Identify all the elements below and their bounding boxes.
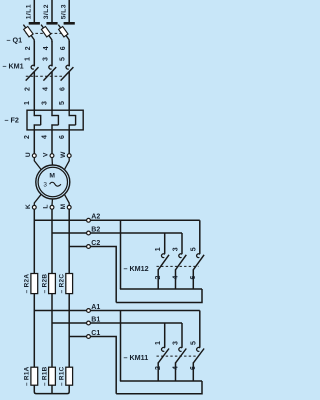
contactor KM12 label [124, 264, 149, 273]
KM11 bottom wire contact 6 [192, 362, 194, 381]
svg-text:M: M [60, 203, 67, 209]
resistor R2C [59, 274, 73, 294]
node C1 line with terminal [69, 330, 116, 394]
KM1 terminal number 3 [42, 57, 49, 61]
wire KM1 to F2 phase 1 [33, 72, 35, 110]
svg-text:– R1A: – R1A [24, 366, 31, 386]
F2 terminal number 4 [42, 135, 49, 139]
wire Q1 pole 1 lower [33, 41, 35, 66]
KM11 contact 3-4 [176, 348, 187, 363]
svg-text:– KM11: – KM11 [124, 353, 149, 362]
svg-text:C2: C2 [91, 240, 100, 247]
KM11 linkage [157, 355, 199, 357]
svg-text:– R2B: – R2B [41, 274, 48, 294]
node A1 line with terminal [34, 304, 200, 313]
rotor terminal M [60, 203, 71, 209]
wire star point bus [34, 385, 69, 393]
resistor R1C [59, 366, 73, 386]
contactor KM1 label [3, 62, 24, 71]
wire F2 to motor terminal phase 1 [33, 130, 35, 154]
wire F2 to motor terminal phase 2 [51, 130, 53, 154]
svg-text:6: 6 [59, 135, 66, 139]
wire below R2B [51, 294, 53, 368]
F2 terminal number 1 [24, 101, 31, 105]
KM11 left vertical from A line [120, 311, 122, 382]
svg-text:4: 4 [43, 46, 50, 50]
svg-text:6: 6 [60, 46, 67, 50]
KM12 terminal number 3 [173, 247, 180, 251]
svg-text:3: 3 [173, 341, 180, 345]
svg-text:A1: A1 [91, 304, 100, 311]
KM11 outer loop [116, 381, 202, 394]
svg-text:6: 6 [60, 87, 67, 91]
svg-text:K: K [25, 204, 32, 209]
KM12 bottom wire contact 4 [175, 269, 177, 289]
svg-text:M: M [49, 173, 55, 180]
svg-text:– R2C: – R2C [59, 274, 66, 294]
KM12 terminal number 1 [155, 247, 162, 251]
svg-text:4: 4 [172, 366, 179, 370]
svg-text:2: 2 [25, 46, 32, 50]
svg-text:5: 5 [190, 341, 197, 345]
rotor terminal K [25, 204, 36, 209]
F2 terminal number 6 [59, 135, 66, 139]
svg-text:– KM1: – KM1 [3, 62, 24, 71]
node B2 line with terminal [52, 226, 182, 235]
KM1 terminal number 2 [25, 87, 32, 91]
svg-text:U: U [25, 152, 32, 157]
KM12 terminal number 4 [172, 276, 179, 280]
svg-text:6: 6 [190, 276, 197, 280]
motor terminal V [43, 152, 54, 157]
KM11 terminal number 3 [173, 341, 180, 345]
KM12 terminal number 2 [155, 276, 162, 280]
svg-text:– KM12: – KM12 [124, 264, 149, 273]
motor 3-phase symbol [43, 181, 60, 188]
KM12 bottom wire contact 2 [157, 269, 159, 289]
KM12 supply corner from A line [199, 220, 201, 254]
KM12 contact 1-2 [158, 254, 169, 270]
wire rotor phase M down [68, 209, 70, 273]
wire below R2C [68, 294, 70, 368]
svg-text:– F2: – F2 [5, 115, 19, 124]
contactor KM1 linkage [26, 75, 63, 77]
wire rotor phase L down [51, 209, 53, 273]
svg-text:5: 5 [190, 247, 197, 251]
node A2 line with terminal [34, 214, 200, 223]
breaker Q1 linkage [26, 32, 63, 34]
breaker Q1 pole 1 blade with fuse body [23, 25, 34, 42]
node C2 line with terminal [69, 240, 116, 303]
contactor KM1 contact 5-6 [61, 65, 74, 80]
resistor R1A [24, 366, 38, 386]
KM12 bottom wire contact 6 [192, 269, 194, 289]
svg-text:4: 4 [42, 135, 49, 139]
svg-text:4: 4 [172, 276, 179, 280]
KM11 terminal number 2 [155, 366, 162, 370]
KM12 terminal number 6 [190, 276, 197, 280]
Q1 terminal number 6 [60, 46, 67, 50]
svg-text:W: W [60, 151, 67, 158]
wire Q1 pole 3 lower [68, 41, 70, 66]
svg-text:1: 1 [155, 247, 162, 251]
KM11 terminal number 4 [172, 366, 179, 370]
F2 terminal number 3 [42, 101, 49, 105]
wire motor feeds U V W [34, 157, 69, 169]
KM11 bottom wire contact 4 [175, 362, 177, 381]
svg-text:4: 4 [42, 87, 49, 91]
KM11 supply stub contact 1 [164, 323, 166, 348]
contactor KM1 contact 1-2 [26, 65, 39, 80]
KM11 contact 1-2 [158, 348, 169, 363]
breaker Q1 label [7, 36, 23, 45]
wire below R2A [33, 294, 35, 368]
svg-text:– R1C: – R1C [59, 366, 66, 386]
overload relay F2 label [5, 115, 19, 124]
F2 terminal number 5 [59, 101, 66, 105]
wire motor rotor leads [34, 195, 69, 206]
KM11 bottom wire contact 2 [157, 362, 159, 381]
svg-text:1: 1 [24, 101, 31, 105]
svg-text:2: 2 [25, 87, 32, 91]
KM11 terminal number 5 [190, 341, 197, 345]
svg-text:1: 1 [25, 57, 32, 61]
KM12 outer loop [116, 289, 202, 303]
svg-text:2: 2 [155, 366, 162, 370]
svg-text:– R1B: – R1B [41, 366, 48, 386]
KM12 common bus [120, 288, 202, 290]
breaker Q1 pole 3 blade with fuse body [58, 25, 69, 42]
svg-text:V: V [43, 152, 50, 157]
svg-text:3: 3 [42, 57, 49, 61]
KM12 terminal number 5 [190, 247, 197, 251]
rotor terminal L [43, 205, 54, 210]
KM1 terminal number 4 [42, 87, 49, 91]
Q1 terminal number 4 [43, 46, 50, 50]
KM12 supply corner from B line [181, 233, 183, 254]
svg-text:3: 3 [42, 101, 49, 105]
F2 terminal number 2 [24, 135, 31, 139]
KM11 terminal number 6 [190, 366, 197, 370]
KM12 left vertical from A line [120, 220, 122, 289]
wire KM1 to F2 phase 2 [51, 72, 53, 110]
resistor R2B [41, 274, 55, 294]
KM12 linkage [157, 265, 199, 267]
contactor KM11 label [124, 353, 149, 362]
supply terminal 3/L2 [43, 0, 57, 23]
KM11 supply corner from B line [181, 323, 183, 348]
KM1 terminal number 1 [25, 57, 32, 61]
svg-text:3: 3 [43, 181, 47, 188]
svg-text:L: L [43, 205, 50, 209]
svg-text:3/L2: 3/L2 [43, 4, 50, 19]
KM1 terminal number 5 [60, 57, 67, 61]
breaker Q1 pole 2 blade with fuse body [41, 25, 52, 42]
motor M 3~ circle [36, 165, 70, 199]
Q1 terminal number 2 [25, 46, 32, 50]
svg-text:2: 2 [24, 135, 31, 139]
KM12 supply stub contact 1 [164, 233, 166, 254]
KM12 contact 5-6 [193, 254, 204, 270]
svg-text:2: 2 [155, 276, 162, 280]
svg-text:B1: B1 [91, 316, 100, 323]
resistor R1B [41, 366, 55, 386]
wire KM1 to F2 phase 3 [68, 72, 70, 110]
wire Q1 pole 2 lower [51, 41, 53, 66]
svg-text:A2: A2 [91, 214, 100, 221]
node B1 line with terminal [52, 316, 182, 325]
overload relay F2 heater meander [27, 110, 83, 131]
supply terminal 1/L1 [26, 0, 40, 23]
KM11 contact 5-6 [193, 348, 204, 363]
svg-text:C1: C1 [91, 330, 100, 337]
svg-text:3: 3 [173, 247, 180, 251]
svg-text:6: 6 [190, 366, 197, 370]
resistor R2A [24, 274, 38, 294]
svg-text:1/L1: 1/L1 [26, 4, 33, 19]
KM12 contact 3-4 [176, 254, 187, 270]
svg-text:– R2A: – R2A [24, 274, 31, 294]
motor letter M [49, 173, 55, 180]
KM11 common bus [120, 380, 202, 382]
svg-text:5: 5 [60, 57, 67, 61]
wire F2 to motor terminal phase 3 [68, 130, 70, 154]
svg-text:– Q1: – Q1 [7, 36, 23, 45]
wire rotor phase K down [33, 209, 35, 273]
supply terminal 5/L3 [60, 0, 74, 23]
motor terminal U [25, 152, 36, 157]
contactor KM1 contact 3-4 [43, 65, 56, 80]
KM1 terminal number 6 [60, 87, 67, 91]
KM11 supply corner from A line [199, 311, 201, 348]
svg-text:1: 1 [155, 341, 162, 345]
KM11 terminal number 1 [155, 341, 162, 345]
svg-text:5/L3: 5/L3 [60, 4, 67, 19]
svg-text:5: 5 [59, 101, 66, 105]
motor terminal W [60, 151, 71, 158]
svg-text:B2: B2 [91, 226, 100, 233]
